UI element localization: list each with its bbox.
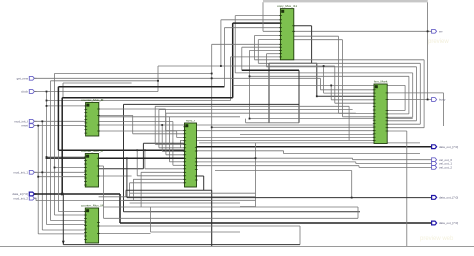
svg-text:fsm_Mark: fsm_Mark [374,79,388,83]
svg-text:sync_r: sync_r [186,118,195,122]
svg-text:counter_Mux_M: counter_Mux_M [81,203,104,207]
svg-text:data_out_[7:0]: data_out_[7:0] [439,145,458,149]
svg-text:counter_Mux_M: counter_Mux_M [81,98,104,102]
svg-text:counter_Mux_B: counter_Mux_B [81,149,103,153]
svg-text:clock: clock [21,90,28,94]
svg-text:mod_init_2: mod_init_2 [13,196,28,200]
svg-text:preview web: preview web [420,236,454,242]
svg-text:get_new: get_new [17,76,29,80]
svg-text:reset: reset [21,124,28,128]
svg-text:preview: preview [428,39,449,45]
svg-text:mod_init_1: mod_init_1 [13,170,28,174]
svg-text:busy: busy [439,98,446,102]
svg-text:data_out_[7:0]: data_out_[7:0] [439,196,458,200]
svg-text:val_out_2: val_out_2 [439,166,452,170]
svg-text:err: err [439,29,443,33]
svg-text:data_out_[7:0]: data_out_[7:0] [439,221,458,225]
svg-text:copy_Mux_r11: copy_Mux_r11 [277,4,297,8]
